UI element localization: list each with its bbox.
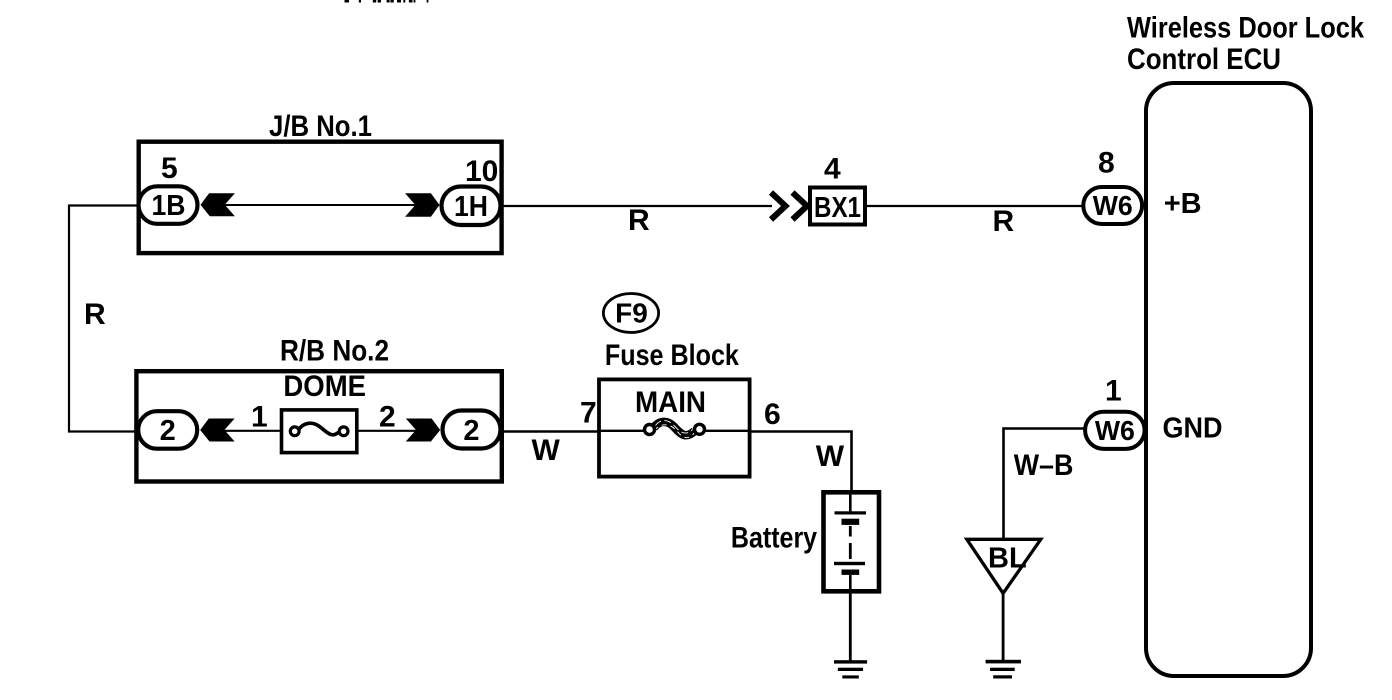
wire 1B to 1H	[224, 204, 416, 206]
svg-text:W–B: W–B	[1014, 449, 1074, 482]
wire R from BX1 to W6	[867, 205, 1084, 207]
svg-text:Fuse Block: Fuse Block	[605, 339, 739, 372]
svg-text:W: W	[816, 440, 845, 473]
arrow into 1B (points left)	[201, 193, 235, 216]
wire W-B from W6 to BL	[1004, 429, 1086, 540]
inline connector chevron 2	[793, 193, 808, 220]
inline connector chevron 1	[771, 193, 786, 220]
svg-text:6: 6	[764, 398, 781, 431]
wire DOME fuse to right arrow	[356, 430, 416, 432]
svg-text:W6: W6	[1093, 190, 1133, 221]
connector 1H	[442, 187, 501, 226]
arrow into 1H (points right)	[405, 193, 439, 217]
ground connector BL triangle	[967, 539, 1041, 593]
svg-text:W: W	[532, 434, 561, 467]
wire R vertical from J/B No.1 pin 5 down to R/B No.2	[69, 206, 137, 432]
svg-text:Battery: Battery	[731, 521, 817, 554]
wire W fuse block to battery	[752, 432, 852, 493]
relay block R/B No.2 box	[136, 371, 501, 481]
svg-text:R: R	[628, 204, 650, 237]
svg-text:F9: F9	[615, 298, 648, 329]
connector 2 (right)	[443, 411, 501, 449]
wire W from R/B No.2 to fuse block	[502, 430, 600, 432]
svg-text:BX1: BX1	[814, 192, 861, 224]
svg-text:+B: +B	[1164, 188, 1202, 220]
fuse DOME symbol	[290, 423, 348, 435]
svg-text:GND: GND	[1163, 413, 1223, 445]
svg-text:2: 2	[160, 415, 176, 447]
svg-text:10: 10	[465, 155, 498, 188]
wire battery to ground	[849, 591, 852, 661]
wire BL to ground	[1002, 593, 1005, 660]
fusible link MAIN symbol	[645, 421, 705, 438]
fuse F9 oval	[603, 294, 658, 333]
svg-text:Control ECU: Control ECU	[1127, 43, 1281, 76]
connector W6 (+B)	[1083, 187, 1142, 224]
svg-text:BL: BL	[988, 542, 1027, 574]
wire through fuse block	[597, 430, 646, 432]
svg-text:J/B No.1: J/B No.1	[269, 110, 372, 143]
wire arrow to DOME fuse	[224, 430, 282, 432]
inline connector BX1 box	[810, 188, 865, 225]
svg-text:2: 2	[379, 401, 396, 434]
arrow into right 2 (points right)	[406, 419, 440, 442]
ground (BL)	[986, 660, 1021, 679]
connector W6 (GND)	[1085, 412, 1145, 449]
svg-text:Wireless Door Lock: Wireless Door Lock	[1127, 11, 1364, 44]
svg-text:DOME: DOME	[283, 370, 366, 403]
Fuse Block box	[599, 379, 750, 476]
svg-text:4: 4	[824, 153, 841, 186]
svg-text:7: 7	[580, 396, 597, 429]
svg-text:R: R	[993, 205, 1015, 238]
battery box	[824, 492, 880, 591]
svg-text:R/B No.2: R/B No.2	[280, 335, 389, 368]
svg-text:1: 1	[1105, 375, 1122, 408]
svg-text:1B: 1B	[152, 190, 186, 222]
svg-text:8: 8	[1098, 147, 1115, 180]
svg-text:2: 2	[463, 415, 479, 447]
truncated text fragments at top edge	[345, 0, 429, 3]
ECU box (Wireless Door Lock Control ECU)	[1146, 83, 1311, 676]
svg-text:R: R	[84, 298, 106, 331]
battery cell symbol	[834, 494, 866, 591]
junction block J/B No.1 box	[139, 142, 502, 253]
fuse DOME box	[282, 410, 357, 453]
wire R from 1H to BX1	[504, 205, 773, 207]
ground (battery)	[834, 660, 867, 678]
connector 1B	[139, 186, 198, 224]
svg-text:5: 5	[161, 152, 178, 185]
svg-text:MAIN: MAIN	[635, 386, 706, 419]
svg-text:W6: W6	[1095, 415, 1135, 446]
svg-text:1: 1	[251, 401, 268, 434]
connector 2 (left)	[138, 411, 197, 449]
arrow into left 2 (points left)	[200, 419, 234, 442]
svg-text:1H: 1H	[454, 191, 488, 223]
